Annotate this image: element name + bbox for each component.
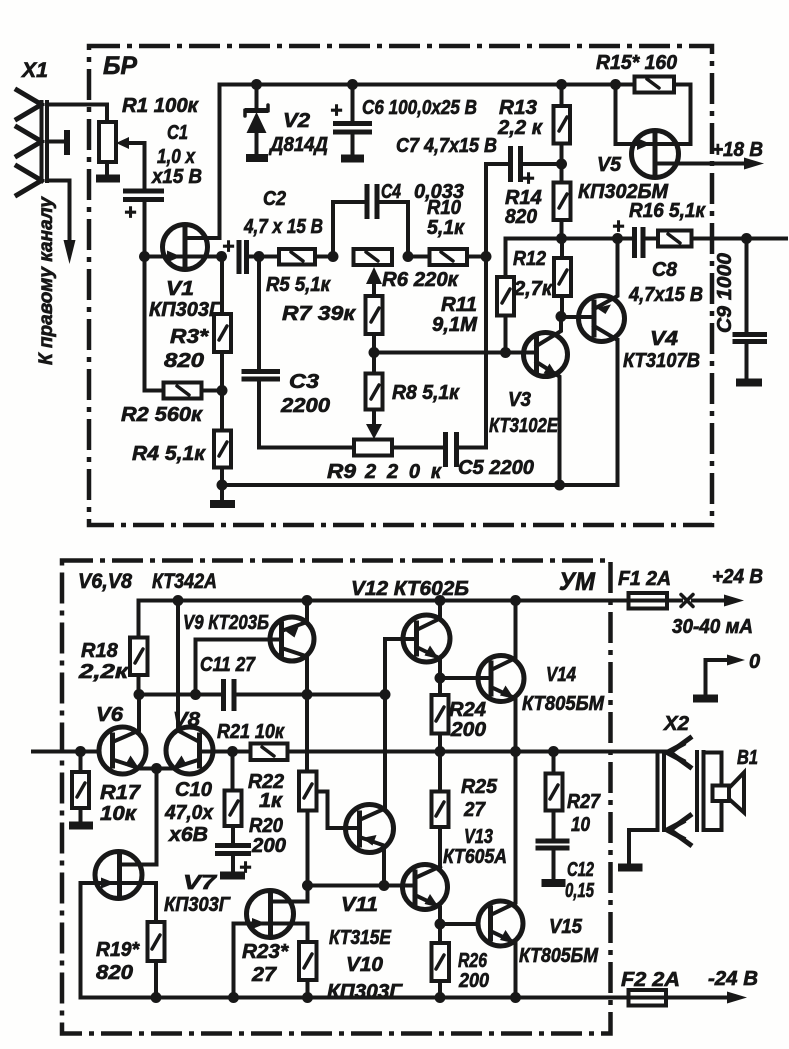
input wire: [33, 750, 99, 754]
speaker B1: [704, 753, 722, 786]
resistor R20 + C10: [231, 752, 235, 791]
svg-text:КТ605А: КТ605А: [443, 846, 507, 868]
svg-text:R18: R18: [81, 640, 119, 662]
wire X1 top to R1: [47, 105, 107, 123]
transistor V15: [478, 752, 523, 998]
ground R1: [96, 175, 120, 183]
svg-text:47,0х: 47,0х: [164, 802, 214, 824]
svg-text:2,7к: 2,7к: [513, 278, 553, 300]
resistor R23: [299, 942, 317, 980]
svg-text:R13: R13: [499, 97, 537, 119]
svg-text:УМ: УМ: [559, 568, 596, 596]
svg-text:V8: V8: [173, 709, 201, 731]
svg-text:V13: V13: [464, 826, 493, 848]
svg-text:С2: С2: [263, 188, 286, 210]
svg-text:820: 820: [164, 350, 204, 372]
svg-text:9,1М: 9,1М: [432, 314, 478, 336]
svg-text:КТ342А: КТ342А: [152, 570, 217, 593]
resistor R3: [220, 257, 224, 315]
svg-text:R12: R12: [513, 248, 546, 270]
svg-text:+: +: [612, 215, 624, 238]
transistor V5: [616, 85, 765, 178]
svg-text:КТ3107В: КТ3107В: [623, 350, 700, 372]
svg-text:КТ315Е: КТ315Е: [329, 927, 392, 949]
svg-text:10к: 10к: [100, 803, 137, 825]
svg-text:0,15: 0,15: [565, 880, 595, 902]
svg-text:R26: R26: [458, 950, 488, 972]
output rail BR: [506, 237, 635, 241]
node line 885: [308, 884, 415, 888]
resistor R1: [99, 122, 116, 162]
transistor V13: [403, 865, 448, 925]
svg-text:R27: R27: [567, 791, 601, 813]
svg-text:R7 39к: R7 39к: [282, 303, 356, 325]
svg-text:200: 200: [450, 719, 486, 741]
svg-text:КТ3102Е: КТ3102Е: [489, 415, 559, 437]
resistor R2: [164, 383, 202, 399]
svg-text:КТ805БМ: КТ805БМ: [522, 693, 605, 715]
resistor R25: [438, 752, 442, 792]
capacitor C4: [333, 202, 367, 257]
resistor R10: [408, 255, 430, 259]
svg-text:+: +: [124, 201, 136, 224]
resistor R26: [438, 924, 442, 943]
resistor R14: [560, 164, 564, 183]
svg-text:С9 1000: С9 1000: [714, 253, 736, 333]
svg-text:+: +: [222, 235, 234, 258]
resistor R15: [616, 83, 635, 87]
capacitor C11: [224, 679, 235, 711]
wire X1 bottom to arrow: [47, 181, 70, 246]
svg-text:4,7 х 15 В: 4,7 х 15 В: [243, 216, 323, 238]
resistor R22: [299, 772, 317, 811]
transistor V6: [99, 695, 157, 775]
transistor V14: [440, 601, 524, 752]
svg-text:R1 100к: R1 100к: [122, 95, 199, 117]
svg-text:х15 В: х15 В: [151, 166, 202, 188]
svg-text:V10: V10: [346, 954, 383, 976]
frame UM: [62, 561, 611, 1034]
capacitor C7: [486, 164, 510, 257]
svg-text:F1 2А: F1 2А: [618, 568, 671, 590]
svg-text:R21 10к: R21 10к: [217, 721, 285, 743]
svg-text:х6В: х6В: [168, 824, 208, 846]
capacitor C5: [446, 432, 457, 467]
svg-text:С1: С1: [167, 122, 188, 144]
transistor V7: [81, 852, 157, 923]
ground symbol: [220, 485, 224, 501]
transistor V8: [157, 601, 251, 775]
resistor R8: [372, 353, 376, 374]
svg-text:2200: 2200: [280, 395, 330, 417]
svg-text:V7: V7: [183, 872, 217, 894]
X1 jack 1: [17, 90, 42, 119]
frame BR: [89, 46, 712, 525]
svg-text:200: 200: [251, 835, 286, 857]
svg-text:С5 2200: С5 2200: [458, 457, 534, 479]
svg-text:V9 КТ203Б: V9 КТ203Б: [183, 612, 269, 634]
svg-text:V5: V5: [597, 154, 622, 176]
svg-text:БР: БР: [103, 52, 137, 80]
resistor R27 + C12: [548, 746, 559, 757]
C11 line: [139, 693, 224, 697]
capacitor C6: [351, 85, 355, 123]
wire X1 middle contact: [47, 140, 64, 144]
svg-text:С11 27: С11 27: [200, 654, 256, 676]
svg-text:4,7х15 В: 4,7х15 В: [628, 284, 703, 306]
resistor R5: [259, 255, 279, 259]
R6 wiper arrow from R7: [372, 282, 376, 296]
svg-text:С7 4,7х15 В: С7 4,7х15 В: [396, 135, 497, 157]
svg-text:V11: V11: [341, 894, 378, 916]
svg-text:С6 100,0х25 В: С6 100,0х25 В: [362, 97, 477, 119]
transistor V4: [561, 239, 625, 353]
svg-text:КП303Г: КП303Г: [164, 894, 232, 916]
capacitor C1: [123, 191, 164, 200]
resistor R13: [556, 79, 567, 90]
top rail UM: [139, 599, 682, 603]
svg-text:С12: С12: [567, 859, 594, 881]
svg-text:R9: R9: [327, 461, 357, 483]
svg-text:R4 5,1к: R4 5,1к: [132, 443, 206, 465]
transistor V9: [196, 601, 315, 695]
svg-text:В1: В1: [737, 747, 758, 769]
svg-text:V2: V2: [283, 110, 310, 132]
svg-text:+18 В: +18 В: [712, 139, 763, 161]
svg-text:V3: V3: [508, 389, 531, 411]
capacitor C2: [239, 240, 247, 274]
wire C1 to V1 gate: [143, 200, 147, 257]
svg-text:КП303Г: КП303Г: [327, 981, 404, 1003]
mid rail: [288, 750, 666, 754]
svg-text:КП303Г: КП303Г: [149, 299, 223, 321]
zener V2: [255, 85, 259, 112]
svg-text:0: 0: [749, 651, 760, 673]
transistor V12: [385, 601, 450, 695]
resistor R24: [438, 678, 442, 695]
svg-text:R11: R11: [441, 294, 477, 316]
resistor R16: [643, 237, 658, 241]
svg-text:1,0 х: 1,0 х: [157, 146, 196, 168]
svg-text:X2: X2: [663, 713, 689, 735]
svg-text:КТ805БМ: КТ805БМ: [519, 945, 599, 967]
svg-text:R8 5,1к: R8 5,1к: [392, 382, 460, 404]
svg-text:5,1к: 5,1к: [427, 217, 465, 239]
capacitor C9: [741, 233, 752, 244]
svg-text:27: 27: [251, 964, 277, 986]
resistor R7: [366, 296, 383, 334]
connector X1 body: [42, 102, 48, 181]
svg-text:V14: V14: [546, 664, 576, 686]
svg-text:1к: 1к: [259, 790, 283, 812]
svg-text:200: 200: [458, 970, 489, 992]
ground bus BR: [222, 340, 618, 485]
contact bar: [64, 130, 70, 155]
resistor R9: [354, 440, 392, 456]
svg-text:С8: С8: [652, 259, 678, 281]
svg-text:R10: R10: [427, 197, 461, 219]
svg-text:820: 820: [505, 206, 537, 228]
svg-text:V4: V4: [650, 328, 678, 350]
svg-text:10: 10: [571, 814, 590, 836]
resistor R12: [560, 239, 564, 259]
svg-text:27: 27: [463, 799, 486, 821]
svg-text:30-40 мА: 30-40 мА: [672, 616, 753, 638]
svg-text:V15: V15: [549, 916, 583, 938]
V7 gate to bus: [79, 883, 83, 998]
svg-text:R17: R17: [100, 782, 141, 804]
wire base line V3: [374, 351, 537, 355]
svg-text:2,2 к: 2,2 к: [497, 117, 543, 139]
resistor R6: [354, 249, 393, 265]
transistor V3: [524, 317, 568, 486]
resistor R18: [137, 601, 141, 638]
resistor R17: [79, 752, 83, 773]
svg-text:С3: С3: [289, 371, 319, 393]
svg-text:V12 КТ602Б: V12 КТ602Б: [351, 578, 469, 600]
svg-text:R6 220к: R6 220к: [382, 269, 459, 291]
X1 jack 2: [17, 127, 42, 156]
svg-text:R3*: R3*: [170, 326, 209, 348]
wire R2 branch: [145, 257, 164, 391]
X1 jack 3: [17, 166, 42, 195]
svg-text:2,2к: 2,2к: [78, 661, 129, 683]
svg-text:R23*: R23*: [242, 941, 289, 963]
svg-text:V1: V1: [166, 278, 194, 300]
svg-text:-24 В: -24 В: [708, 968, 758, 990]
svg-text:+24 В: +24 В: [712, 566, 763, 588]
capacitor C3: [257, 257, 261, 371]
transistor V10: [234, 886, 308, 943]
node gate V1: [139, 251, 150, 262]
fuse F1: [629, 593, 668, 609]
svg-text:F2 2А: F2 2А: [621, 969, 680, 991]
svg-text:R20: R20: [249, 815, 283, 837]
V9 collector down to R22: [305, 695, 309, 772]
svg-text:220к: 220к: [364, 461, 442, 483]
svg-text:V6: V6: [96, 704, 124, 726]
arrow down: [64, 240, 76, 264]
bottom bus: [81, 996, 667, 1000]
svg-text:V6,V8: V6,V8: [78, 570, 132, 593]
svg-text:К правому каналу: К правому каналу: [36, 196, 57, 365]
svg-text:R5 5,1к: R5 5,1к: [266, 274, 331, 296]
svg-text:R15* 160: R15* 160: [596, 52, 677, 74]
svg-text:820: 820: [96, 962, 133, 984]
resistor R11: [504, 239, 508, 278]
resistor R4: [220, 391, 224, 431]
transistor V1: [145, 85, 222, 270]
svg-text:С4: С4: [381, 181, 401, 203]
svg-text:Д814Д: Д814Д: [268, 134, 328, 156]
zero terminal: [706, 660, 731, 694]
node V1 source: [216, 251, 227, 262]
svg-text:R16 5,1к: R16 5,1к: [629, 200, 706, 222]
svg-text:R2 560к: R2 560к: [121, 404, 203, 426]
emitters to V7 drain: [155, 769, 159, 865]
svg-text:С10: С10: [175, 779, 212, 801]
svg-text:X1: X1: [21, 59, 48, 82]
capacitor C8: [635, 227, 644, 258]
svg-text:R25: R25: [461, 776, 498, 798]
R1 wiper arrow: [116, 137, 129, 149]
top rail BR: [220, 83, 616, 87]
resistor R19: [148, 922, 165, 961]
svg-text:R24: R24: [449, 699, 486, 721]
transistor V11: [346, 695, 394, 886]
svg-text:R19*: R19*: [96, 939, 140, 961]
node line 924 to V15 base: [440, 922, 478, 926]
svg-text:+: +: [330, 99, 342, 122]
resistor R21: [227, 746, 238, 757]
fuse F2: [629, 990, 667, 1006]
